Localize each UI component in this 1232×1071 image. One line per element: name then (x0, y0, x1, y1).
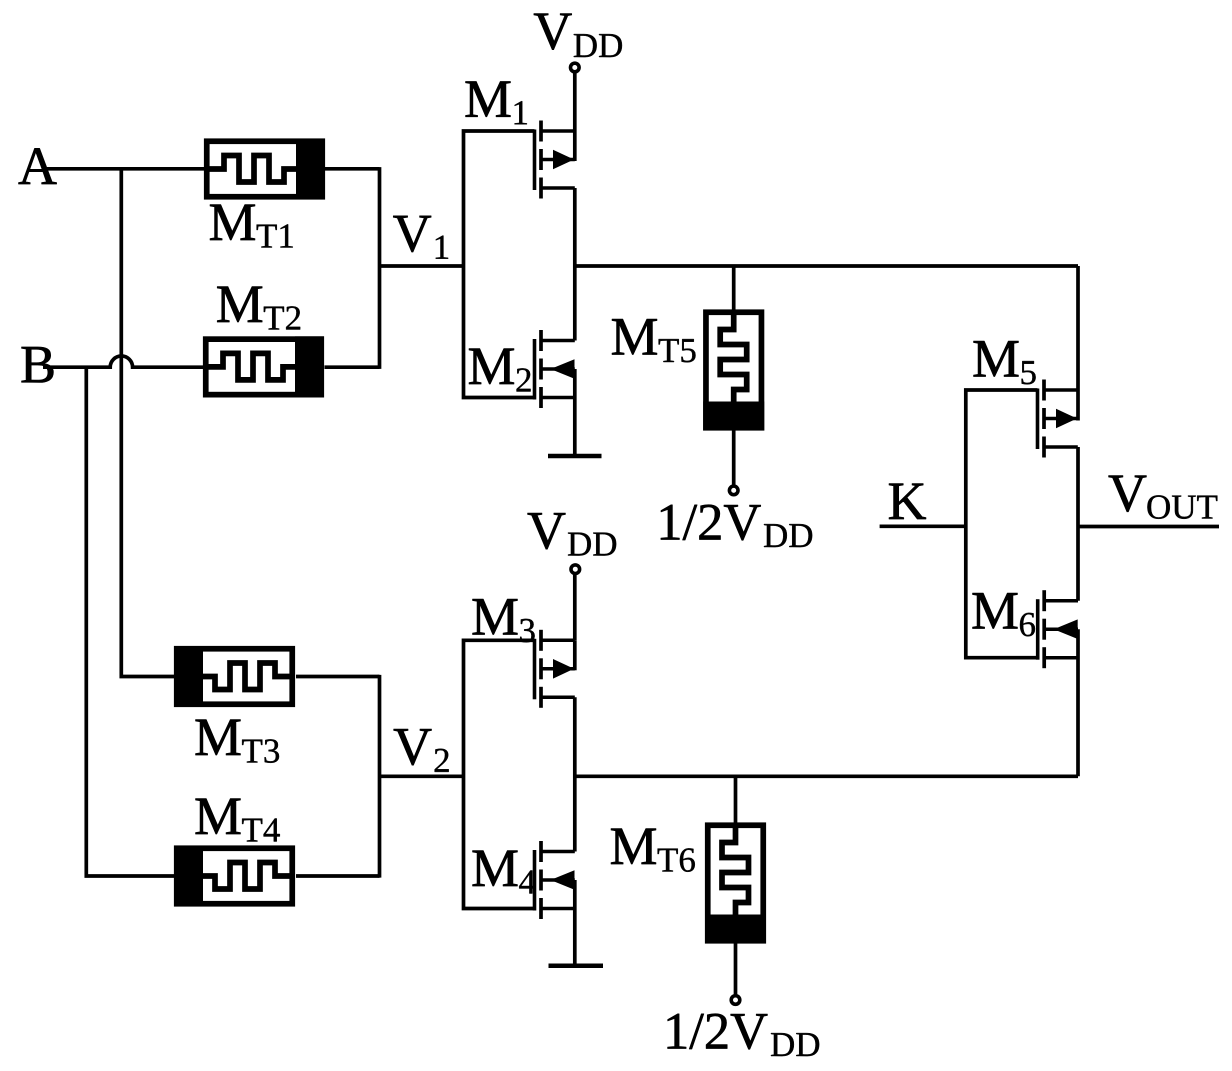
wire: tap from output line to MT6 (734, 776, 738, 822)
label M3 (473, 599, 518, 634)
node A label (19, 148, 57, 184)
wire: M1 drain to M2 drain through V1-out node (573, 188, 577, 341)
memristor MT3 (input A, polarity left) (174, 646, 292, 707)
wire: MT1 output (325, 167, 380, 171)
node B label (22, 347, 54, 383)
wire: gate connection box M5/M6 (966, 390, 1038, 658)
transistor M2 (NMOS): gate bar, segmented channel, leads, body arrow (535, 330, 575, 408)
memristor MT4 (input B, polarity left) (174, 846, 292, 907)
wire: junction MT3/MT4 vertical (378, 675, 382, 878)
transistor M1 (PMOS): gate bar, segmented channel, leads, body arrow (535, 121, 575, 199)
wire: M3 drain to M4 drain through V2-out node (573, 697, 577, 851)
label M1 (466, 81, 511, 116)
memristor MT6 (vertical, polarity bottom) (705, 825, 766, 943)
wire: B branch down to MT4 (86, 367, 174, 876)
wire: M1 source rail to body arrow (573, 131, 577, 161)
wire: A branch down to MT3 (121, 169, 174, 677)
transistor M4 (NMOS): gate bar, segmented channel, leads, body arrow (535, 841, 575, 919)
wire: gate connection box M1/M2 (464, 131, 535, 398)
memristor MT2 (input B, polarity right) (206, 336, 324, 397)
label MT3 (196, 720, 241, 755)
wire: MT2 output (325, 365, 380, 369)
wire: M3 source rail to body arrow (573, 640, 577, 670)
transistor M5 (PMOS): gate bar, segmented channel, leads, body arrow (1038, 380, 1078, 458)
label MT1 (210, 205, 255, 240)
ground symbol (M2) (548, 454, 602, 459)
VDD label (bottom) (528, 513, 566, 549)
VDD terminal (bottom) (571, 565, 580, 574)
wire: MT5 to 1/2VDD terminal (732, 431, 736, 487)
wire: MT6 to 1/2VDD terminal (734, 944, 738, 996)
wire: K input (880, 524, 966, 528)
wire: VDD to M3 source (573, 574, 577, 640)
1/2VDD label (lower) (668, 1014, 768, 1050)
1/2VDD terminal (top) (729, 486, 738, 495)
label M2 (469, 349, 514, 384)
node V2 label (394, 729, 432, 765)
label M4 (473, 851, 518, 886)
wire: tap from output line to MT5 (732, 266, 736, 310)
wire: VDD to M1 source (573, 72, 577, 131)
label MT4 (196, 799, 241, 834)
label M5 (974, 341, 1019, 376)
transistor M3 (PMOS): gate bar, segmented channel, leads, body arrow (535, 630, 575, 708)
wire: VOUT output (1078, 525, 1219, 529)
wire: M5 drain to M6 drain through VOUT node (1076, 447, 1080, 601)
wire: M2 source to ground (573, 369, 577, 456)
wire: M4 source to ground (573, 880, 577, 966)
ground symbol (M4) (549, 963, 604, 968)
wire: gate connection box M3/M4 (464, 640, 535, 908)
transistor M6 (NMOS): gate bar, segmented channel, leads, body arrow (1038, 590, 1078, 668)
memristor MT1 (input A, polarity right) (207, 139, 325, 200)
wire: MT3 output (296, 675, 380, 679)
node V1 label (393, 216, 431, 252)
label M6 (973, 593, 1018, 628)
wire: input A to MT1 (47, 167, 204, 171)
wire: M6 source down to inverter-2 output line (1076, 629, 1080, 776)
memristor MT5 (vertical, polarity bottom) (703, 312, 764, 430)
label MT5 (612, 319, 657, 354)
wire: inverter-1 output line to M5 (575, 264, 1078, 268)
wire: junction MT1/MT2 vertical (378, 167, 382, 369)
wire: node V1 to gate of M1/M2 (380, 264, 464, 268)
node VOUT label (1109, 476, 1147, 512)
label MT6 (611, 829, 656, 864)
node K label (889, 484, 926, 519)
wire: MT4 output (296, 874, 380, 878)
wire: input B to MT2 with hop over A branch (43, 356, 203, 367)
wire: output line corner down to M5 (1076, 266, 1080, 421)
VDD label (top) (534, 14, 572, 50)
label MT2 (217, 287, 262, 322)
1/2VDD terminal (bottom) (731, 996, 740, 1005)
wire: inverter-2 output line to M6 (575, 774, 1078, 778)
VDD terminal (top) (571, 63, 580, 72)
1/2VDD label (upper) (661, 505, 761, 541)
wire: node V2 to gate of M3/M4 (380, 774, 464, 778)
